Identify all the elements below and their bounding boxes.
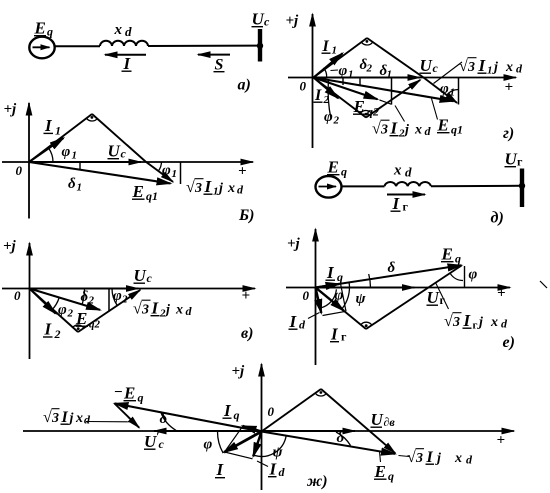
svg-text:U: U bbox=[371, 410, 384, 429]
svg-text:U: U bbox=[505, 150, 518, 169]
svg-text:∂в: ∂в bbox=[384, 415, 396, 429]
svg-text:+j: +j bbox=[4, 102, 18, 118]
svg-text:q: q bbox=[138, 391, 144, 405]
svg-text:2: 2 bbox=[54, 327, 61, 341]
svg-text:0: 0 bbox=[300, 79, 307, 94]
svg-text:+: + bbox=[238, 164, 247, 180]
svg-text:E: E bbox=[353, 97, 365, 116]
svg-text:3: 3 bbox=[51, 411, 59, 426]
svg-text:δ: δ bbox=[388, 260, 396, 276]
svg-text:3: 3 bbox=[415, 451, 423, 466]
svg-text:Б): Б) bbox=[238, 207, 255, 224]
svg-text:0: 0 bbox=[16, 163, 23, 178]
svg-text:j: j bbox=[435, 451, 441, 466]
svg-text:φ: φ bbox=[324, 109, 333, 125]
svg-text:I: I bbox=[44, 320, 53, 339]
svg-text:q: q bbox=[455, 252, 461, 266]
svg-text:c: c bbox=[147, 271, 153, 285]
svg-text:I: I bbox=[326, 263, 335, 282]
svg-text:x: x bbox=[454, 451, 462, 466]
svg-text:I: I bbox=[123, 54, 132, 73]
svg-text:d: d bbox=[279, 465, 286, 479]
svg-text:I: I bbox=[392, 194, 401, 213]
svg-text:c: c bbox=[159, 437, 165, 451]
svg-text:I: I bbox=[61, 409, 69, 426]
svg-text:0: 0 bbox=[14, 288, 21, 303]
svg-text:2: 2 bbox=[67, 308, 74, 320]
svg-text:2: 2 bbox=[333, 115, 340, 127]
svg-text:E: E bbox=[75, 309, 87, 328]
svg-text:E: E bbox=[441, 245, 453, 264]
svg-text:а): а) bbox=[238, 77, 251, 94]
svg-text:δ: δ bbox=[68, 176, 76, 192]
svg-text:q: q bbox=[388, 469, 394, 483]
svg-text:d: d bbox=[84, 413, 91, 427]
svg-text:ж): ж) bbox=[306, 473, 328, 490]
svg-text:+j: +j bbox=[232, 364, 246, 380]
svg-text:1: 1 bbox=[450, 87, 456, 99]
svg-text:3: 3 bbox=[467, 60, 475, 75]
svg-text:+j: +j bbox=[286, 13, 300, 29]
svg-text:E: E bbox=[327, 158, 339, 177]
svg-text:x: x bbox=[414, 123, 422, 138]
svg-text:√: √ bbox=[372, 121, 381, 138]
svg-text:q1: q1 bbox=[146, 189, 158, 203]
svg-text:d: d bbox=[405, 165, 412, 180]
svg-text:E: E bbox=[34, 19, 46, 38]
svg-text:0: 0 bbox=[268, 404, 275, 419]
svg-text:φ: φ bbox=[339, 63, 348, 79]
svg-text:е): е) bbox=[503, 334, 515, 351]
svg-text:I: I bbox=[463, 311, 472, 330]
svg-text:U: U bbox=[427, 288, 440, 307]
svg-text:ψ: ψ bbox=[356, 291, 367, 307]
svg-text:c: c bbox=[264, 15, 270, 29]
svg-text:φ: φ bbox=[162, 163, 171, 179]
svg-text:+: + bbox=[505, 80, 514, 96]
svg-text:x: x bbox=[227, 181, 235, 196]
svg-text:г: г bbox=[517, 155, 523, 169]
svg-text:3: 3 bbox=[194, 181, 202, 196]
svg-text:1: 1 bbox=[348, 69, 354, 81]
svg-text:√: √ bbox=[444, 313, 453, 330]
svg-text:3: 3 bbox=[380, 123, 388, 138]
svg-text:√: √ bbox=[459, 58, 468, 75]
svg-text:E: E bbox=[132, 182, 144, 201]
svg-text:U: U bbox=[420, 56, 433, 75]
svg-text:I: I bbox=[223, 401, 232, 420]
svg-text:q: q bbox=[337, 270, 343, 284]
svg-text:c: c bbox=[121, 147, 127, 161]
svg-text:1: 1 bbox=[332, 45, 338, 57]
svg-text:d: d bbox=[237, 183, 244, 197]
svg-text:√: √ bbox=[133, 301, 142, 318]
svg-text:d: d bbox=[425, 124, 432, 138]
svg-text:1: 1 bbox=[77, 182, 83, 194]
svg-text:I: I bbox=[426, 449, 434, 466]
svg-text:+j: +j bbox=[287, 236, 301, 252]
svg-text:c: c bbox=[433, 61, 439, 75]
svg-text:E: E bbox=[374, 462, 386, 481]
svg-text:q2: q2 bbox=[89, 319, 101, 331]
svg-text:г: г bbox=[403, 200, 409, 214]
svg-text:I: I bbox=[204, 177, 213, 196]
svg-text:1: 1 bbox=[213, 186, 219, 198]
svg-text:I: I bbox=[289, 312, 298, 331]
svg-text:д): д) bbox=[491, 210, 504, 227]
svg-text:√: √ bbox=[407, 449, 416, 466]
svg-text:E: E bbox=[123, 384, 135, 403]
svg-text:0: 0 bbox=[303, 288, 310, 303]
svg-text:I: I bbox=[269, 460, 278, 479]
svg-text:3: 3 bbox=[141, 303, 149, 318]
svg-text:x: x bbox=[75, 411, 83, 426]
svg-text:j: j bbox=[492, 60, 498, 75]
svg-text:√: √ bbox=[43, 409, 52, 426]
svg-text:I: I bbox=[322, 38, 330, 55]
svg-text:2: 2 bbox=[398, 128, 405, 140]
svg-text:1: 1 bbox=[172, 168, 178, 180]
svg-text:δ: δ bbox=[337, 430, 345, 446]
svg-text:I: I bbox=[478, 56, 487, 75]
svg-text:q: q bbox=[341, 165, 347, 179]
svg-text:в): в) bbox=[241, 325, 253, 342]
svg-text:d: d bbox=[299, 318, 306, 332]
svg-text:I: I bbox=[390, 119, 399, 138]
svg-text:+: + bbox=[497, 433, 506, 449]
svg-text:d: d bbox=[466, 453, 473, 467]
svg-text:d: d bbox=[501, 317, 508, 331]
svg-text:1: 1 bbox=[72, 150, 78, 162]
svg-text:+j: +j bbox=[3, 239, 17, 255]
svg-text:ψ: ψ bbox=[273, 445, 284, 461]
svg-text:U: U bbox=[108, 142, 121, 161]
svg-text:q: q bbox=[234, 408, 240, 422]
svg-text:d: d bbox=[516, 62, 523, 76]
svg-text:φ: φ bbox=[113, 288, 122, 304]
svg-text:U: U bbox=[134, 266, 147, 285]
svg-text:δ: δ bbox=[160, 411, 168, 427]
svg-text:φ: φ bbox=[469, 267, 478, 283]
svg-text:1: 1 bbox=[487, 65, 493, 77]
svg-text:φ: φ bbox=[58, 302, 67, 318]
svg-text:φ: φ bbox=[204, 437, 213, 453]
svg-text:2: 2 bbox=[121, 294, 128, 306]
svg-text:d: d bbox=[186, 304, 193, 318]
svg-text:I: I bbox=[44, 116, 53, 135]
svg-text:2: 2 bbox=[366, 63, 373, 75]
svg-text:x: x bbox=[490, 315, 498, 330]
svg-text:x: x bbox=[393, 163, 402, 179]
svg-text:1: 1 bbox=[55, 124, 61, 138]
svg-text:I: I bbox=[314, 87, 322, 104]
svg-text:г: г bbox=[341, 330, 347, 344]
svg-text:U: U bbox=[252, 10, 265, 29]
svg-text:2: 2 bbox=[159, 308, 166, 320]
svg-text:3: 3 bbox=[452, 315, 460, 330]
svg-text:I: I bbox=[330, 325, 339, 344]
svg-text:q1: q1 bbox=[451, 123, 463, 137]
svg-text:+: + bbox=[242, 288, 251, 304]
svg-text:x: x bbox=[175, 303, 183, 318]
svg-text:x: x bbox=[114, 22, 123, 38]
svg-text:I: I bbox=[216, 460, 225, 479]
svg-text:φ: φ bbox=[335, 288, 344, 304]
svg-text:г): г) bbox=[503, 125, 514, 142]
svg-text:−: − bbox=[114, 385, 123, 401]
svg-text:E: E bbox=[437, 116, 449, 135]
svg-text:q: q bbox=[47, 25, 53, 39]
svg-text:φ: φ bbox=[440, 81, 449, 97]
svg-text:δ: δ bbox=[81, 289, 89, 305]
svg-text:I: I bbox=[151, 299, 160, 318]
svg-text:x: x bbox=[505, 60, 513, 75]
svg-text:d: d bbox=[125, 24, 132, 39]
svg-text:√: √ bbox=[186, 179, 195, 196]
svg-text:1: 1 bbox=[387, 69, 393, 81]
svg-text:φ: φ bbox=[62, 144, 71, 160]
svg-text:j: j bbox=[477, 315, 483, 330]
svg-text:+: + bbox=[497, 286, 506, 302]
svg-text:S: S bbox=[215, 57, 224, 74]
svg-text:г: г bbox=[473, 320, 478, 332]
svg-text:2: 2 bbox=[88, 295, 95, 307]
